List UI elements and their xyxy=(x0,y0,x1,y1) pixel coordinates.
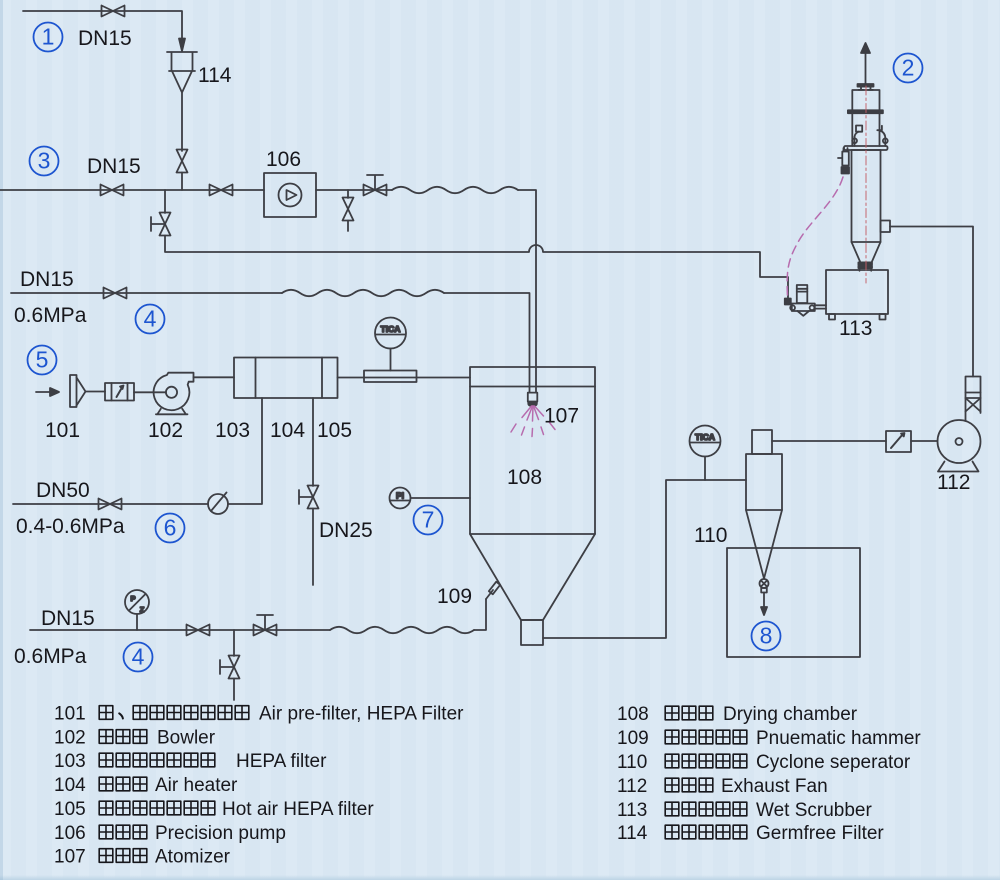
air pre-filter 101 xyxy=(70,375,105,407)
node 2 xyxy=(894,54,923,83)
valve on DN50 xyxy=(99,499,122,510)
svg-text:0.6MPa: 0.6MPa xyxy=(14,304,87,327)
discharge arrow node 8 xyxy=(761,593,767,616)
HEPA filter 103 / air heater 104 / hot air filter 105 block xyxy=(234,358,338,399)
globe valve with side stem xyxy=(151,213,171,236)
inline filter before fan xyxy=(886,431,911,452)
PI pressure gauge node 7 xyxy=(390,488,471,509)
pipe line-4 DN15 0.6MPa upper xyxy=(11,290,530,393)
svg-text:DN15: DN15 xyxy=(87,155,141,178)
svg-text:DN15: DN15 xyxy=(20,268,74,291)
svg-text:6: 6 xyxy=(164,515,177,541)
flexible hose on line-3 xyxy=(392,187,536,393)
svg-text:108: 108 xyxy=(617,704,649,725)
pipe line-3 DN15 xyxy=(0,189,264,191)
TICA gauge 2 xyxy=(690,426,721,481)
svg-text:112: 112 xyxy=(617,776,647,797)
svg-text:104: 104 xyxy=(270,419,305,442)
clamp fitting left on column xyxy=(852,126,862,147)
svg-text:103: 103 xyxy=(54,751,86,772)
svg-text:8: 8 xyxy=(760,623,773,649)
svg-text:102: 102 xyxy=(148,419,183,442)
node 8 xyxy=(752,622,781,651)
svg-text:Hot air HEPA filter: Hot air HEPA filter xyxy=(222,799,374,820)
svg-text:Germfree Filter: Germfree Filter xyxy=(756,823,884,844)
exhaust pipe cyclone to fan xyxy=(772,440,938,442)
pipe scrubber outlet to fan xyxy=(890,227,973,377)
svg-text:106: 106 xyxy=(54,823,86,844)
svg-text:Atomizer: Atomizer xyxy=(155,847,231,868)
valve on line-4 upper xyxy=(104,288,127,299)
svg-text:4: 4 xyxy=(132,644,145,670)
svg-text:DN25: DN25 xyxy=(319,519,373,542)
pipe DN50 0.4-0.6MPa xyxy=(13,398,262,504)
svg-text:Drying chamber: Drying chamber xyxy=(723,704,858,725)
globe valve with stem on line-3 xyxy=(364,175,387,196)
svg-text:103: 103 xyxy=(215,419,250,442)
pressure gauge on DN50 xyxy=(208,493,228,515)
svg-text:113: 113 xyxy=(617,800,647,821)
svg-text:109: 109 xyxy=(437,585,472,608)
circulation pump at tank xyxy=(785,285,826,316)
pneumatic hammer 109 on cone xyxy=(486,582,500,599)
svg-text:114: 114 xyxy=(198,64,232,87)
branch down from line-3 junction xyxy=(164,190,166,213)
svg-text:Exhaust Fan: Exhaust Fan xyxy=(721,776,828,797)
red centerline in scrubber xyxy=(865,86,867,283)
exhaust fan 112 xyxy=(938,377,981,472)
inline filter box (101 detail) xyxy=(105,383,134,401)
svg-text:105: 105 xyxy=(54,799,86,820)
wet scrubber column 113 xyxy=(844,84,888,271)
svg-text:110: 110 xyxy=(694,524,727,547)
svg-text:Air heater: Air heater xyxy=(155,775,238,796)
atomizer spray xyxy=(511,406,555,437)
water pipe to wet scrubber xyxy=(165,236,788,300)
side outlet of scrubber xyxy=(881,221,891,233)
cyclone separator 110 xyxy=(746,430,782,579)
svg-text:PI: PI xyxy=(396,491,404,501)
svg-text:0.6MPa: 0.6MPa xyxy=(14,645,87,668)
drain branch with valve xyxy=(220,630,240,700)
air inlet arrow node 5 xyxy=(36,388,59,396)
precision pump 106 xyxy=(264,173,316,217)
TICA gauge 1 xyxy=(375,318,406,371)
drain branch with valve below pump outlet xyxy=(343,190,354,231)
legend right column xyxy=(617,704,921,844)
scrubber water tank xyxy=(826,270,888,320)
valve under 114 xyxy=(177,150,188,191)
svg-text:105: 105 xyxy=(317,419,352,442)
svg-text:101: 101 xyxy=(54,704,86,725)
powder outlet pipe to cyclone xyxy=(543,480,746,638)
svg-text:110: 110 xyxy=(617,752,647,773)
svg-text:P: P xyxy=(130,594,135,603)
svg-text:108: 108 xyxy=(507,466,542,489)
svg-text:113: 113 xyxy=(839,317,872,340)
svg-text:104: 104 xyxy=(54,775,86,796)
node 5 xyxy=(28,346,57,375)
svg-text:DN15: DN15 xyxy=(41,607,95,630)
globe valve with top stem on bottom line-4 xyxy=(254,615,277,636)
svg-text:102: 102 xyxy=(54,728,86,749)
node 7 xyxy=(414,506,443,535)
svg-text:Pnuematic hammer: Pnuematic hammer xyxy=(756,728,921,749)
svg-text:Bowler: Bowler xyxy=(157,728,216,749)
svg-text:Cyclone seperator: Cyclone seperator xyxy=(756,752,911,773)
svg-text:5: 5 xyxy=(36,347,49,373)
svg-text:7: 7 xyxy=(422,507,435,533)
arrow into filter 114 xyxy=(179,39,185,52)
svg-text:DN15: DN15 xyxy=(78,27,132,50)
svg-text:3: 3 xyxy=(38,148,51,174)
pipe to blower xyxy=(134,391,166,393)
svg-text:Wet Scrubber: Wet Scrubber xyxy=(756,800,872,821)
legend left column xyxy=(54,704,464,868)
drying chamber 108 xyxy=(470,367,595,645)
hot air duct to chamber xyxy=(338,377,471,379)
pipe blower to heater block xyxy=(194,376,235,378)
svg-text:TICA: TICA xyxy=(380,324,400,334)
node 1 xyxy=(34,23,63,52)
svg-text:0.4-0.6MPa: 0.4-0.6MPa xyxy=(16,515,125,538)
svg-text:101: 101 xyxy=(45,419,80,442)
svg-text:Precision pump: Precision pump xyxy=(155,823,286,844)
blower 102 xyxy=(154,373,194,415)
pipe from pump 106 xyxy=(316,189,392,191)
svg-text:Z: Z xyxy=(140,605,145,614)
svg-text:106: 106 xyxy=(266,148,301,171)
node 4 upper xyxy=(136,305,165,334)
node 4 lower xyxy=(124,643,153,672)
pipe line-4 bottom DN15 0.6MPa xyxy=(30,599,486,633)
atomizer 107 nozzle xyxy=(528,393,538,407)
svg-text:2: 2 xyxy=(902,55,915,81)
svg-text:114: 114 xyxy=(617,823,648,844)
pipe line-1 DN15 inlet xyxy=(23,11,182,39)
svg-text:1: 1 xyxy=(42,24,55,50)
exhaust arrow node 2 xyxy=(861,43,870,84)
svg-text:109: 109 xyxy=(617,728,649,749)
svg-text:107: 107 xyxy=(544,405,579,428)
clamp fitting right on column xyxy=(877,126,887,146)
pipe DN25 drain xyxy=(312,398,314,486)
valve on line-3 right xyxy=(210,185,233,196)
valve on line-3 left xyxy=(101,185,124,196)
valve on line-1 xyxy=(102,6,125,17)
svg-text:112: 112 xyxy=(937,471,970,494)
rotary valve at cyclone tip xyxy=(760,579,769,593)
node 6 xyxy=(156,514,185,543)
svg-text:Air pre-filter, HEPA Filter: Air pre-filter, HEPA Filter xyxy=(259,704,464,725)
spray fitting hanging left xyxy=(838,148,849,174)
svg-text:4: 4 xyxy=(144,306,157,332)
pink dashed spray return line xyxy=(787,177,843,296)
node 3 xyxy=(30,147,59,176)
svg-text:DN50: DN50 xyxy=(36,479,90,502)
germfree filter 114 xyxy=(167,52,197,151)
globe valve with side stem on DN25 xyxy=(299,486,319,586)
valve on bottom line-4 xyxy=(187,625,210,636)
svg-text:TICA: TICA xyxy=(695,432,715,442)
svg-text:HEPA filter: HEPA filter xyxy=(236,751,327,772)
svg-text:107: 107 xyxy=(54,847,86,868)
P/Z gauge xyxy=(125,590,149,630)
temperature sensor paddle xyxy=(364,371,417,383)
collection box 8 xyxy=(727,548,860,657)
